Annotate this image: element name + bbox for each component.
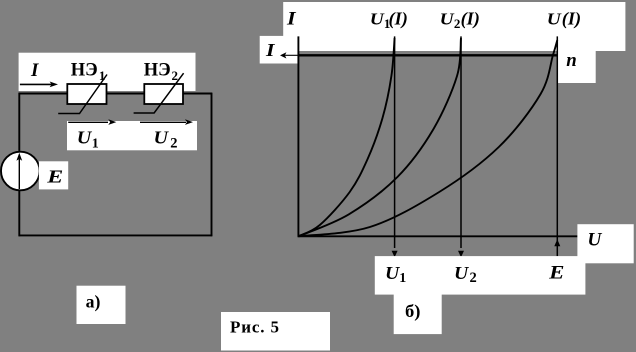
label box n [558,50,596,83]
svg-text:U: U [440,10,455,29]
nonlinear element NE1 diagonal [58,75,107,114]
label n [566,50,577,71]
current level line n [280,52,558,58]
current arrow I [20,82,58,88]
nonlinear element NE2 diagonal [134,73,184,113]
EMF source E circle [1,152,40,191]
svg-text:2: 2 [470,270,477,286]
axis I vertical [297,36,299,236]
svg-text:б): б) [405,301,421,322]
label I current [30,60,39,81]
label U2 [154,128,178,152]
svg-text:U: U [77,128,93,148]
label E [46,166,63,186]
label box graph top [283,2,625,51]
label U2(I) [440,9,480,31]
curve U(I) [298,40,557,236]
svg-text:U: U [587,230,603,250]
svg-text:НЭ: НЭ [144,61,171,81]
label box U axis [577,224,633,263]
svg-text:U: U [547,10,562,29]
voltage arrow U2 [140,119,193,125]
label box E [39,161,68,189]
wire left [18,93,20,237]
svg-text:I: I [265,40,276,60]
label box I left [260,36,299,64]
svg-text:а): а) [86,292,101,313]
label U axis [587,230,603,250]
svg-text:E: E [46,166,63,186]
curve U1(I) [298,38,394,236]
label U1 [77,128,99,152]
svg-text:I: I [286,9,296,30]
voltage arrow U1 [68,119,116,125]
label box bottom U1 U2 E [375,256,586,295]
label a) [86,292,101,313]
svg-text:U: U [385,263,400,283]
nonlinear element NE1 body [67,84,106,104]
label E bottom [548,263,565,284]
label НЭ2 [144,61,178,83]
label box a) [77,286,126,324]
label I axis top [286,9,296,30]
label box circuit top [19,53,196,91]
label Ris.5 [230,317,279,336]
svg-text:1: 1 [399,271,406,286]
svg-text:(I): (I) [389,9,408,30]
drop line U1 [392,36,398,257]
svg-text:U: U [454,263,469,283]
axis U horizontal [298,235,578,237]
wire bottom [19,234,213,236]
label U1(I) [370,9,408,31]
curve U2(I) [298,38,461,236]
wire right [211,93,213,237]
label U1 bottom [385,263,406,286]
svg-text:U: U [154,128,170,148]
svg-text:2: 2 [454,16,461,31]
label box Ris.5 [221,312,330,351]
label U(I) [547,9,581,30]
svg-text:n: n [566,50,577,71]
wire top [19,93,213,95]
svg-text:НЭ: НЭ [71,61,98,81]
label U2 bottom [454,263,477,286]
drop line E [554,36,560,256]
label box b) [394,295,442,335]
nonlinear element NE2 body [144,84,183,104]
svg-text:U: U [370,10,385,29]
svg-text:1: 1 [92,136,99,151]
EMF arrow [16,153,22,189]
drop line U2 [458,36,464,257]
label I left [265,40,276,60]
label b) [405,301,421,322]
svg-text:E: E [548,263,565,284]
svg-text:Рис. 5: Рис. 5 [230,317,279,336]
svg-text:2: 2 [170,135,177,151]
svg-text:(I): (I) [461,9,480,30]
label НЭ1 [71,61,106,83]
svg-text:2: 2 [172,68,179,83]
svg-text:(I): (I) [562,9,581,30]
svg-text:I: I [30,60,39,81]
label box U1 U2 [67,121,197,150]
